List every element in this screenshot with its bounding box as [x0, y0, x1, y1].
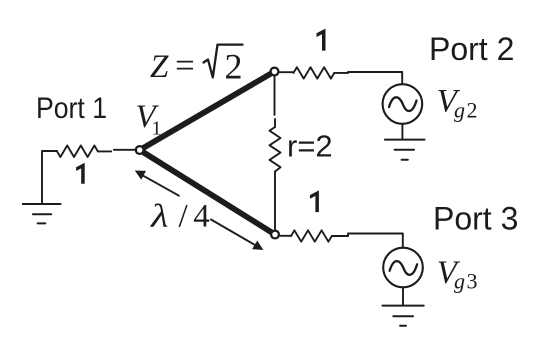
wire: Vg2 to ground: [401, 124, 403, 140]
ground (Vg3): [383, 306, 424, 326]
svg-text:Port 1: Port 1: [36, 92, 107, 125]
source Vg2 circle: [383, 84, 423, 124]
wire: Vg3 to ground: [402, 287, 404, 305]
svg-text:/: /: [179, 198, 189, 234]
wire: horizontal to Vg2 corner and down: [348, 72, 402, 84]
ground (Port 1): [23, 204, 61, 223]
svg-text:g: g: [454, 98, 465, 123]
resistor 1 (Port 3): [291, 230, 332, 241]
wire: resistor to corner: [334, 72, 348, 74]
value 1 (port1 resistor): [76, 163, 85, 184]
svg-text:Port 2: Port 2: [429, 31, 514, 67]
wire: small stub above r=2: [274, 119, 276, 127]
svg-text:r=2: r=2: [287, 128, 333, 163]
wire: r=2 to Port3 node: [274, 172, 276, 231]
value 1 (port3 resistor): [310, 190, 319, 212]
svg-text:4: 4: [193, 198, 210, 234]
wire: stub into V1 node: [114, 149, 135, 151]
node V1: [136, 146, 144, 154]
lambda/4 dimension arrow upper segment: [143, 175, 179, 195]
resistor r=2: [270, 127, 281, 172]
svg-text:λ: λ: [150, 198, 169, 234]
svg-text:3: 3: [467, 269, 478, 294]
wire: Port1 ground riser: [42, 151, 57, 204]
arrowhead lower of lambda/4: [252, 241, 263, 251]
wire: resistor to V1 node: [98, 150, 111, 152]
resistor 1 (Port 2): [294, 67, 335, 78]
svg-text:Port 3: Port 3: [433, 201, 518, 237]
wire: Port2 node to resistor: [280, 71, 294, 73]
transmission line Z=sqrt(2) lower (V1 node to Port3 node): [140, 150, 275, 235]
ground (Vg2): [385, 140, 425, 160]
svg-text:=: =: [175, 46, 195, 85]
wire: horizontal to Vg3 corner and down: [348, 234, 403, 248]
wire: resistor to corner: [332, 235, 348, 237]
transmission line Z=sqrt(2) upper (V1 node to Port2 node): [140, 72, 275, 151]
svg-text:Z: Z: [150, 49, 169, 85]
node Port3 junction: [271, 231, 279, 239]
node Port2 junction: [271, 68, 279, 76]
svg-text:1: 1: [152, 118, 162, 140]
arrowhead upper of lambda/4: [135, 171, 146, 180]
svg-text:g: g: [454, 269, 465, 294]
wire: Port3 node to resistor: [280, 235, 291, 237]
source Vg3 circle: [383, 248, 423, 288]
svg-text:2: 2: [225, 46, 243, 86]
sine symbol Vg3: [390, 261, 418, 275]
lambda/4 dimension arrow lower segment: [211, 220, 256, 246]
svg-text:2: 2: [467, 98, 478, 123]
value 1 (port2 resistor): [317, 29, 326, 51]
sine symbol Vg2: [389, 97, 417, 111]
radical bar of sqrt(2): [204, 45, 243, 78]
resistor 1 (Port 1 termination): [57, 146, 98, 158]
wire: Port2 node down to r=2: [274, 77, 276, 115]
